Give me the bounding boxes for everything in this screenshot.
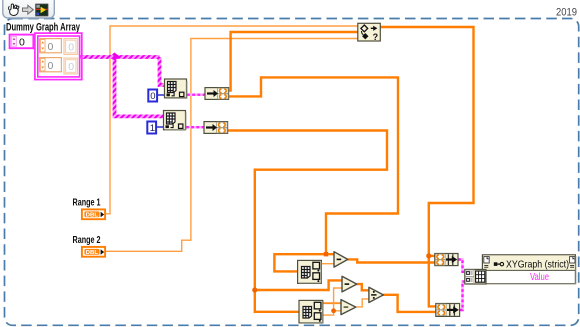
node IndexArray2 [164, 111, 186, 130]
cluster wire Bundle2 to BuildArray [460, 282, 465, 311]
cluster numeric field 1 [40, 39, 62, 53]
node Subtract3 [341, 300, 356, 315]
wire InRange output down to bundles [380, 27, 473, 256]
svg-text:0: 0 [150, 91, 155, 102]
reference glyph [494, 262, 498, 266]
terminal Range2 [73, 234, 106, 257]
svg-text:0: 0 [48, 60, 54, 72]
node ArrayMaxMin1 [298, 260, 322, 283]
node ArrayMaxMin2 [299, 300, 323, 323]
corner glyph right [570, 257, 575, 263]
svg-text:Range 2: Range 2 [73, 234, 101, 246]
blue constant 1 [147, 122, 156, 135]
junction dot min wire [331, 308, 336, 313]
cluster numeric field 4 dimmed [64, 58, 78, 74]
cluster numeric field 3 [40, 58, 62, 72]
corner glyph left [484, 257, 489, 263]
node InRangeCoerce [358, 23, 381, 42]
wire ArrayMaxMin2 max output to Subtract3 top input [322, 302, 341, 304]
wire Unbundle1 top output to InRange middle input [229, 32, 358, 91]
terminal Range1 [73, 197, 106, 220]
wire Subtract1 output to Bundle1 lower input [348, 259, 435, 262]
node Subtract2 [342, 276, 357, 292]
node PropertyNode XYGraph [482, 255, 575, 284]
cluster numeric field 2 dimmed [64, 39, 78, 55]
wire branch junction down to ArrayMaxMin2 input [255, 290, 299, 312]
wire branch down to Bundle2 top input [429, 256, 436, 307]
cluster wire Bundle1 to BuildArray [458, 260, 465, 272]
wire blue const 1 to IndexArray2 [157, 126, 164, 128]
node BuildArray [465, 269, 486, 284]
arrow icon [23, 5, 34, 14]
svg-text:Range 1: Range 1 [73, 197, 101, 209]
junction on unbundle1 wire [324, 252, 328, 256]
hand tool icon [9, 4, 19, 15]
node Unbundle2 [204, 122, 228, 134]
wire ArrayMaxMin1 max output to Subtract1 lower input [321, 263, 334, 265]
svg-text:1: 1 [150, 123, 155, 134]
svg-text:?: ? [373, 32, 379, 42]
svg-text:Dummy Graph Array: Dummy Graph Array [6, 22, 81, 34]
junction dot lower-left [252, 287, 257, 292]
svg-text:DBL: DBL [86, 213, 99, 219]
wire Unbundle2 bottom output U path to junction [228, 131, 388, 291]
wire Unbundle1 bottom output long path [229, 77, 399, 254]
wire blue const 0 to IndexArray1 [158, 94, 165, 96]
wire ArrayMaxMin2 min output with branch up to Subtract2 lower input [322, 288, 342, 315]
svg-text:DBL: DBL [86, 250, 99, 256]
wire branch to ArrayMaxMin1 input [274, 254, 326, 271]
node Unbundle1 [205, 88, 229, 100]
svg-text:2019: 2019 [556, 6, 577, 18]
node IndexArray1 [165, 79, 187, 98]
wire Subtract3 output to Divide bottom input [356, 299, 369, 307]
svg-text:XYGraph (strict): XYGraph (strict) [506, 259, 569, 271]
wire Subtract2 output to Divide top input [357, 284, 369, 290]
vi icon [36, 4, 48, 16]
wire Divide output to Bundle2 bottom input [383, 295, 435, 312]
svg-text:0: 0 [19, 36, 25, 48]
cluster wire IA1 to Unbundle1 [187, 93, 205, 95]
node Subtract1 [334, 252, 348, 267]
svg-text:Value: Value [530, 271, 549, 283]
blue constant 0 [148, 90, 157, 103]
node Bundle2 [436, 304, 460, 317]
node Divide [369, 287, 384, 302]
toolbar tab [3, 0, 55, 18]
svg-text:0: 0 [68, 42, 74, 54]
array shell outer frame [33, 33, 82, 80]
wire Range1 to InRange upper input [106, 26, 358, 214]
index display control [10, 35, 34, 49]
cluster wire IA2 to Unbundle2 [186, 126, 204, 128]
wire Range2 to InRange lower input [106, 39, 358, 252]
array cluster hatched wire from array control [81, 53, 164, 117]
junction dot at bundle1 [426, 253, 431, 258]
node Bundle1 [435, 254, 458, 266]
svg-text:0: 0 [68, 61, 74, 73]
svg-text:0: 0 [48, 41, 54, 53]
